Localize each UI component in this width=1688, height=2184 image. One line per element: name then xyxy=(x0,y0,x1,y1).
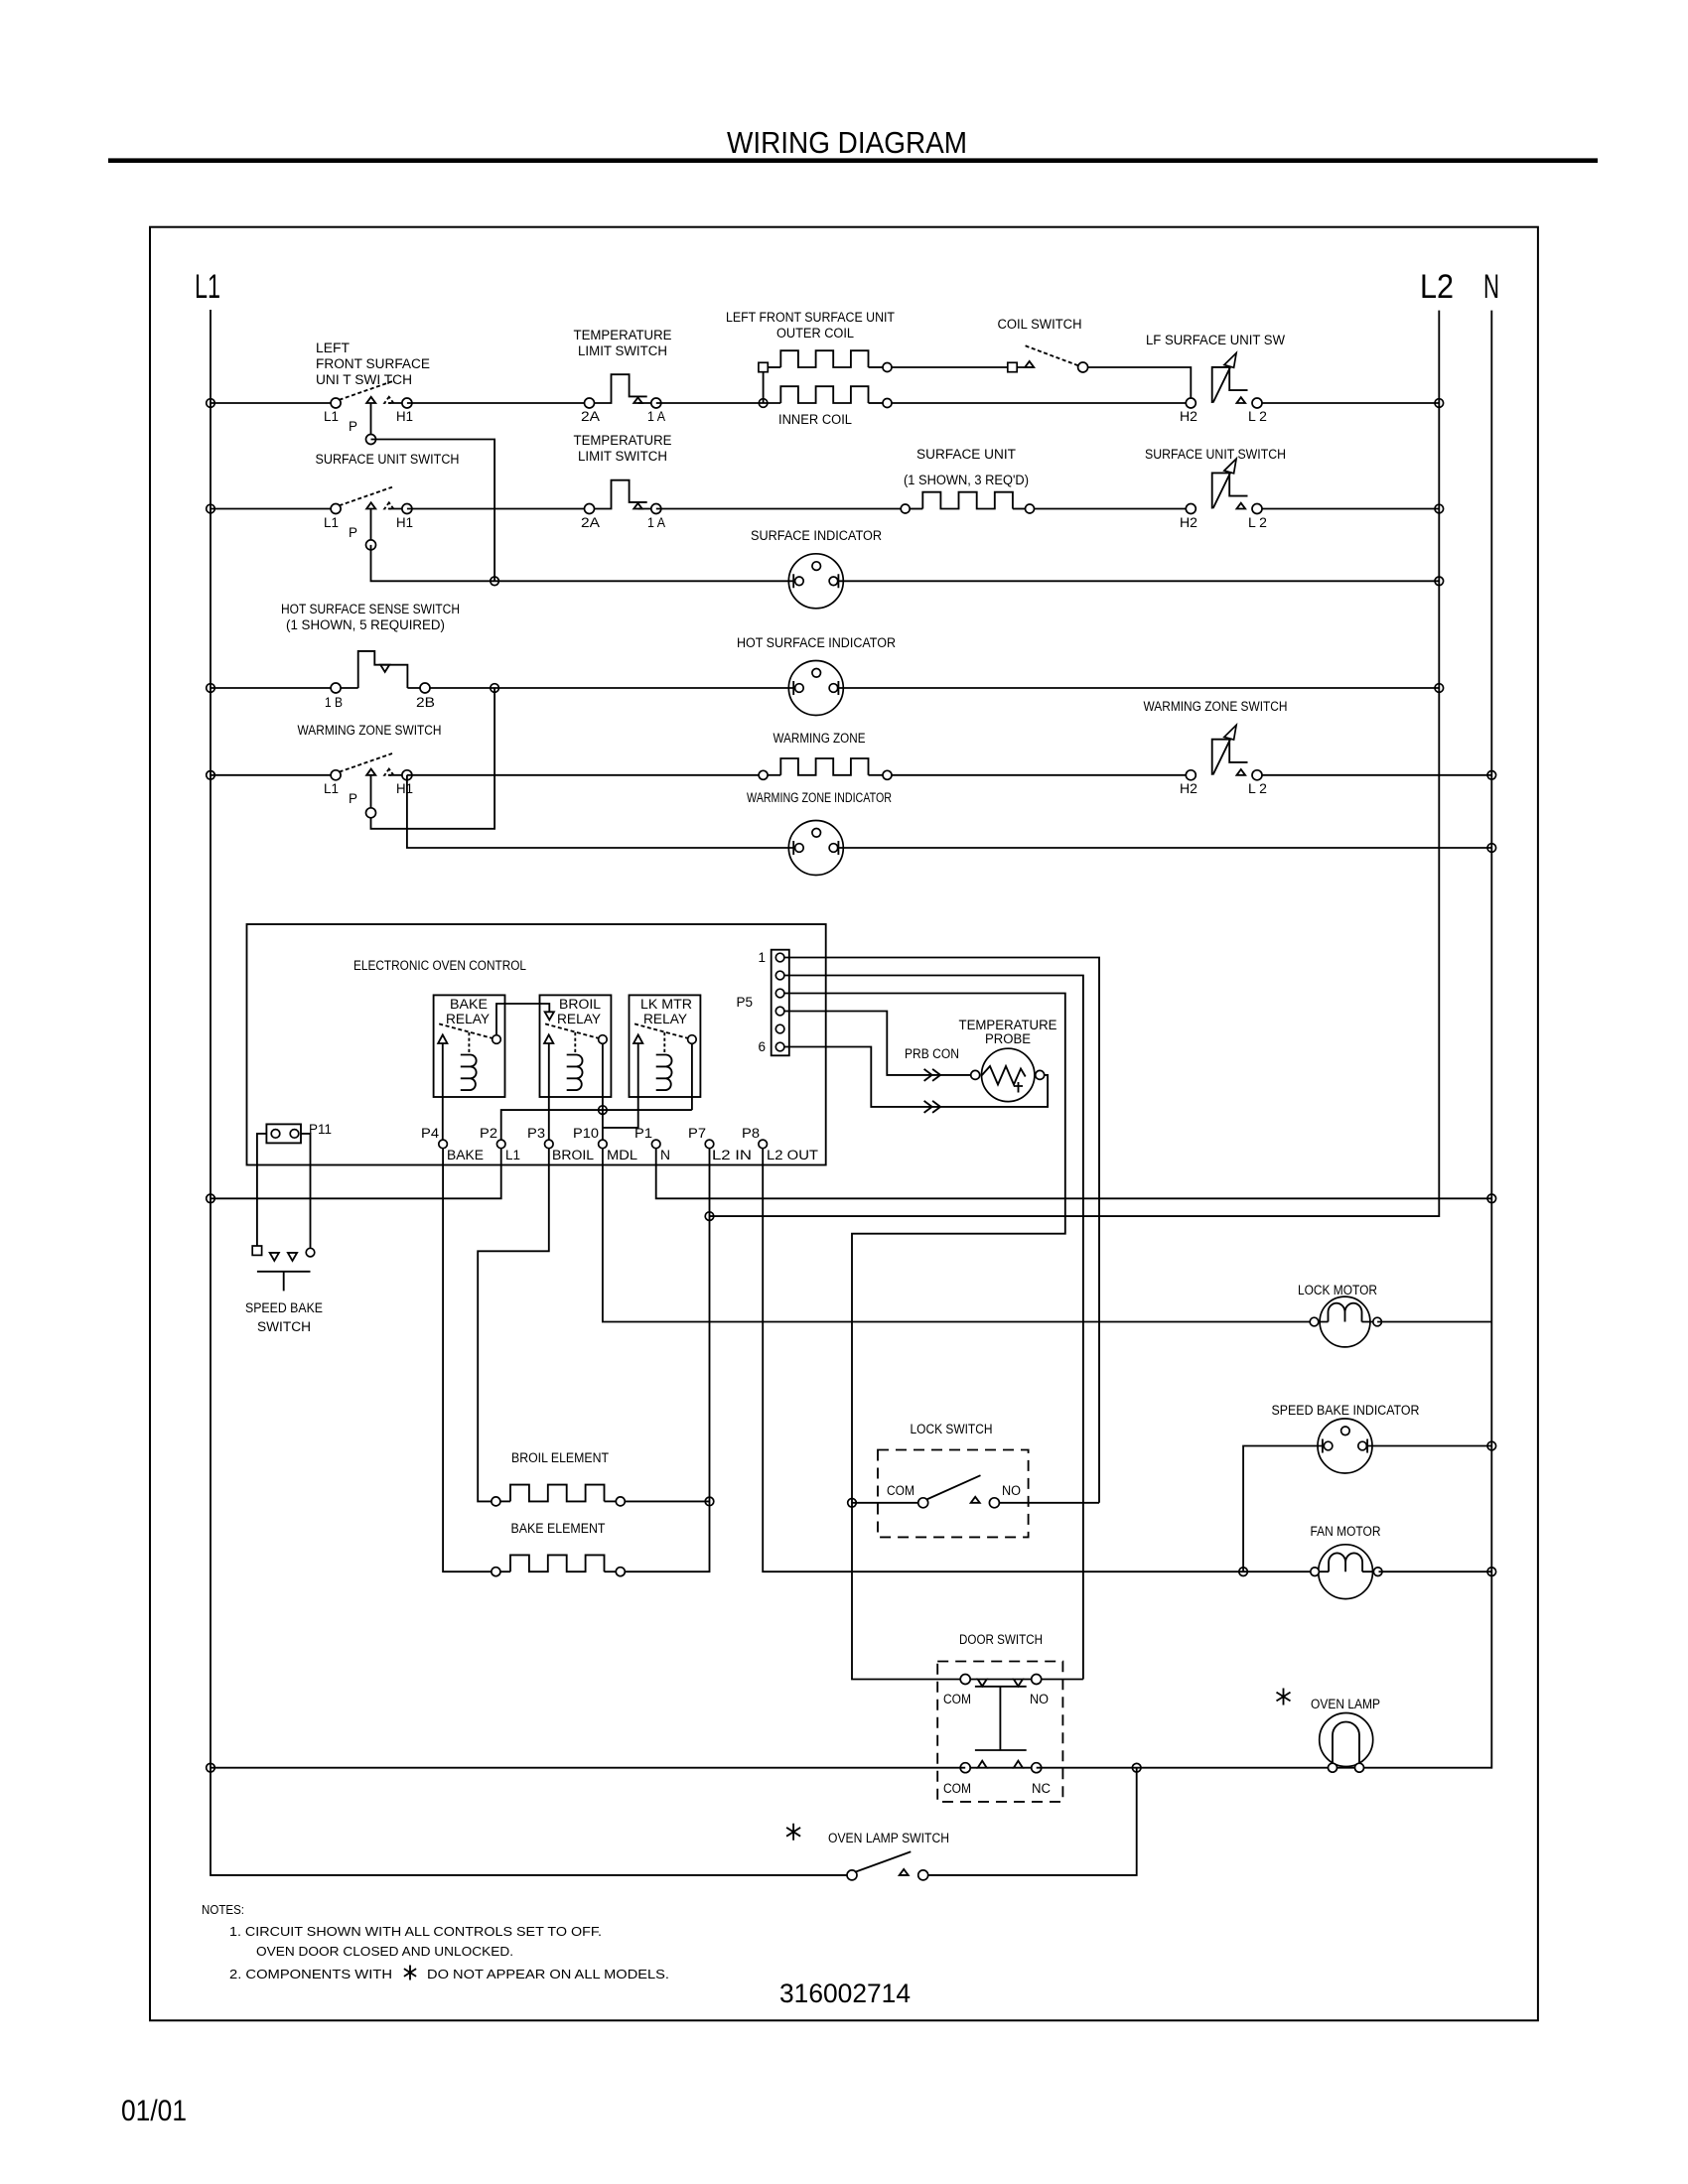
svg-text:BROIL: BROIL xyxy=(559,997,602,1012)
svg-text:H1: H1 xyxy=(396,781,413,796)
connector PRB CON upper xyxy=(924,1069,941,1081)
switch WARMING ZONE SWITCH: contacts L1-P-H1 xyxy=(331,753,412,818)
wire outer coil to coil switch xyxy=(892,366,1008,368)
wire P2 L1 feed xyxy=(211,1149,501,1199)
svg-text:P3: P3 xyxy=(527,1126,545,1141)
wire surface indicator row xyxy=(494,580,1439,582)
switch LOCK SWITCH contacts COM-NO xyxy=(852,1475,1099,1508)
junction inner coil node xyxy=(759,399,768,408)
wire H1 to 2A xyxy=(407,402,590,404)
wire H1 to warming element xyxy=(407,774,764,776)
pin P1 terminal xyxy=(651,1140,660,1149)
resistor INNER COIL xyxy=(780,386,892,407)
relay K1 BAKE RELAY NO contact xyxy=(438,1034,447,1043)
wire P7 L2 IN to elements xyxy=(625,1149,709,1572)
svg-text:BAKE: BAKE xyxy=(447,1148,484,1162)
switch S1 LEFT FRONT SURFACE UNIT SWITCH: contacts L1-P-H1 xyxy=(331,381,412,444)
svg-text:H1: H1 xyxy=(396,409,413,424)
junction L1 door row xyxy=(207,1763,215,1772)
relay K1 BAKE RELAY common terminal xyxy=(492,1035,501,1044)
svg-text:BAKE: BAKE xyxy=(450,997,488,1012)
junction L2 row1 xyxy=(1435,399,1444,408)
wire speed bake indicator to N xyxy=(1367,1445,1491,1447)
wire P5 pin1 to lock switch NO xyxy=(784,958,1099,1503)
svg-text:LIMIT SWITCH: LIMIT SWITCH xyxy=(578,449,667,464)
title rule xyxy=(108,158,1598,163)
wire N bus (to oven lamp) xyxy=(1364,311,1492,1768)
switch OVEN LAMP SWITCH xyxy=(847,1851,928,1880)
node broil feed contact xyxy=(545,1012,554,1020)
wire speed bake indicator left drop xyxy=(1243,1446,1323,1572)
switch LOCK SWITCH enclosure xyxy=(878,1450,1029,1538)
svg-text:SURFACE UNIT SWITCH: SURFACE UNIT SWITCH xyxy=(316,452,460,467)
wire H1 to 2A row2 xyxy=(407,508,590,510)
switch SPEED BAKE SWITCH actuator xyxy=(257,1272,311,1292)
svg-text:P: P xyxy=(349,419,357,434)
svg-text:P7: P7 xyxy=(688,1126,706,1141)
relay K2 BROIL RELAY NO contact xyxy=(544,1034,553,1043)
svg-text:L 2: L 2 xyxy=(1248,781,1267,796)
switch LF SURFACE UNIT SW: contacts H2-L2 xyxy=(1186,353,1262,408)
svg-text:2. COMPONENTS WITH: 2. COMPONENTS WITH xyxy=(229,1967,392,1981)
svg-text:OUTER COIL: OUTER COIL xyxy=(776,326,854,341)
relay K1 BAKE RELAY armature link xyxy=(468,1032,470,1055)
svg-text:TEMPERATURE: TEMPERATURE xyxy=(959,1018,1057,1032)
junction N EOC xyxy=(1487,1194,1496,1203)
svg-text:1 B: 1 B xyxy=(325,695,343,710)
relay K2 BROIL RELAY coil xyxy=(567,1055,583,1091)
svg-text:FRONT SURFACE: FRONT SURFACE xyxy=(316,356,430,371)
svg-text:COIL SWITCH: COIL SWITCH xyxy=(998,317,1082,332)
pin P2 terminal xyxy=(496,1140,505,1149)
junction L1 row2 xyxy=(207,504,215,513)
svg-text:P5: P5 xyxy=(736,995,753,1010)
wire row4 from L1 xyxy=(211,687,358,689)
junction N row5 xyxy=(1487,771,1496,780)
junction L2 row3 xyxy=(1435,577,1444,586)
svg-text:OVEN LAMP: OVEN LAMP xyxy=(1311,1697,1380,1711)
junction fan feed xyxy=(1239,1568,1248,1576)
junction N speed bake xyxy=(1487,1441,1496,1450)
svg-text:L1: L1 xyxy=(195,268,220,306)
svg-text:HOT SURFACE SENSE SWITCH: HOT SURFACE SENSE SWITCH xyxy=(281,602,460,616)
lamp SPEED BAKE INDICATOR xyxy=(1318,1419,1372,1473)
svg-text:P: P xyxy=(349,525,357,540)
connector PRB CON lower xyxy=(924,1101,941,1113)
junction lamp switch tap xyxy=(1132,1763,1141,1772)
relay K3 LK MTR RELAY common terminal xyxy=(688,1035,697,1044)
svg-text:P4: P4 xyxy=(421,1126,440,1141)
svg-text:LF SURFACE UNIT SW: LF SURFACE UNIT SW xyxy=(1146,333,1285,347)
wire door NC to oven lamp xyxy=(1037,1767,1359,1769)
svg-text:TEMPERATURE: TEMPERATURE xyxy=(574,433,672,448)
wire P8 L2 OUT to fan/indicator xyxy=(763,1149,1315,1572)
motor FAN MOTOR xyxy=(1311,1545,1382,1599)
relay K3 LK MTR RELAY NO contact xyxy=(633,1034,642,1043)
wire 1A to coil node xyxy=(656,402,781,404)
svg-text:NO: NO xyxy=(1030,1692,1049,1706)
wire LK MTR common drop xyxy=(691,1043,693,1110)
svg-text:SURFACE INDICATOR: SURFACE INDICATOR xyxy=(751,528,882,543)
svg-text:PRB CON: PRB CON xyxy=(905,1046,959,1061)
wire 1A to surface unit xyxy=(656,508,906,510)
svg-text:L2 IN: L2 IN xyxy=(712,1148,752,1162)
svg-text:N: N xyxy=(660,1148,670,1162)
svg-text:RELAY: RELAY xyxy=(446,1012,490,1026)
wire broil NO to P3 xyxy=(548,1043,550,1144)
relay K1 BAKE RELAY box xyxy=(434,995,505,1097)
relay K3 LK MTR RELAY armature link xyxy=(663,1032,665,1055)
svg-text:DOOR SWITCH: DOOR SWITCH xyxy=(959,1632,1043,1647)
motor LOCK MOTOR xyxy=(1310,1297,1381,1347)
lamp HOT SURFACE INDICATOR xyxy=(788,661,843,716)
svg-text:FAN MOTOR: FAN MOTOR xyxy=(1311,1524,1381,1539)
wire L1 bus xyxy=(211,310,852,1875)
pin P4 terminal xyxy=(439,1140,448,1149)
resistor SURFACE UNIT element xyxy=(901,492,1034,513)
svg-text:P8: P8 xyxy=(742,1126,760,1141)
relay K2 BROIL RELAY box xyxy=(540,995,612,1097)
wire P11 left lead xyxy=(257,1134,267,1246)
svg-text:COM: COM xyxy=(943,1781,971,1796)
switch DOOR SWITCH enclosure xyxy=(937,1662,1062,1802)
resistor LEFT FRONT SURFACE UNIT OUTER COIL xyxy=(768,350,892,371)
svg-text:ELECTRONIC OVEN CONTROL: ELECTRONIC OVEN CONTROL xyxy=(353,958,526,973)
svg-text:NOTES:: NOTES: xyxy=(202,1902,244,1917)
junction L1 row5 xyxy=(207,771,215,780)
svg-text:PROBE: PROBE xyxy=(985,1031,1031,1046)
junction indicator feed xyxy=(491,577,499,586)
svg-text:L1: L1 xyxy=(505,1148,520,1162)
wire lock motor to N xyxy=(1377,1321,1491,1323)
svg-text:WARMING ZONE SWITCH: WARMING ZONE SWITCH xyxy=(298,723,442,738)
svg-text:UNI T SWI TCH: UNI T SWI TCH xyxy=(316,372,412,387)
svg-text:WIRING DIAGRAM: WIRING DIAGRAM xyxy=(727,125,967,160)
svg-text:2A: 2A xyxy=(581,409,600,424)
wire row2 L1 to switch xyxy=(211,508,336,510)
wire H1 down to warming indicator xyxy=(407,775,793,848)
resistor BROIL ELEMENT xyxy=(492,1485,710,1506)
wire P row2 to indicator junction xyxy=(371,545,495,581)
svg-text:SURFACE UNIT: SURFACE UNIT xyxy=(916,447,1016,462)
relay K3 LK MTR RELAY coil xyxy=(656,1055,672,1091)
switch HOT SURFACE SENSE SWITCH contacts 1B-2B xyxy=(331,651,430,693)
relay K1 BAKE RELAY contact blade xyxy=(439,1024,496,1039)
switch DOOR SWITCH upper pole COM-NO xyxy=(960,1675,1083,1687)
wire row1 L1 to switch xyxy=(211,402,336,404)
junction L1 EOC feed xyxy=(207,1194,215,1203)
svg-text:P: P xyxy=(349,791,357,806)
relay K1 BAKE RELAY coil xyxy=(461,1055,477,1091)
switch DOOR SWITCH actuator bar xyxy=(975,1687,1027,1750)
wire L2 contact to L2 bus xyxy=(1262,402,1439,404)
svg-text:RELAY: RELAY xyxy=(643,1012,687,1026)
svg-text:OVEN LAMP SWITCH: OVEN LAMP SWITCH xyxy=(828,1831,949,1845)
svg-text:P10: P10 xyxy=(573,1126,599,1141)
lamp OVEN LAMP xyxy=(1320,1713,1373,1773)
svg-text:NC: NC xyxy=(1032,1781,1051,1796)
switch S2 SURFACE UNIT SWITCH: contacts L1-P-H1 xyxy=(331,487,412,550)
svg-text:BROIL: BROIL xyxy=(552,1148,595,1162)
wire bake common to broil feed xyxy=(496,1004,549,1035)
pin P8 terminal xyxy=(759,1140,768,1149)
svg-text:1 A: 1 A xyxy=(647,515,665,530)
switch SURFACE UNIT SWITCH (right): contacts H2-L2 xyxy=(1186,459,1262,513)
svg-text:COM: COM xyxy=(887,1483,914,1498)
wire P11 right lead xyxy=(301,1134,311,1248)
resistor WARMING ZONE element xyxy=(759,758,892,779)
svg-text:SPEED BAKE INDICATOR: SPEED BAKE INDICATOR xyxy=(1272,1403,1420,1418)
junction hot surface feed xyxy=(491,684,499,693)
wire P5 pin2 to door switch NO xyxy=(784,976,1083,1680)
svg-text:N: N xyxy=(1483,268,1499,306)
junction N fan xyxy=(1487,1568,1496,1576)
svg-text:H1: H1 xyxy=(396,515,413,530)
switch TEMPERATURE LIMIT SWITCH (row2): contacts 2A-1A xyxy=(585,480,661,514)
svg-text:2A: 2A xyxy=(581,515,600,530)
wire lamp switch drop xyxy=(923,1768,1137,1875)
svg-text:(1 SHOWN, 5 REQUIRED): (1 SHOWN, 5 REQUIRED) xyxy=(286,617,445,632)
svg-text:6: 6 xyxy=(758,1039,766,1054)
svg-text:HOT SURFACE INDICATOR: HOT SURFACE INDICATOR xyxy=(737,635,896,650)
relay K2 BROIL RELAY armature link xyxy=(574,1032,576,1055)
switch TEMPERATURE LIMIT SWITCH (row1): contacts 2A-1A xyxy=(585,374,661,408)
svg-text:1. CIRCUIT SHOWN WITH ALL CON: 1. CIRCUIT SHOWN WITH ALL CONTROLS SET T… xyxy=(229,1924,602,1939)
wire outer/inner coil link xyxy=(763,367,765,403)
svg-text:RELAY: RELAY xyxy=(557,1012,601,1026)
svg-text:1 A: 1 A xyxy=(647,409,665,424)
svg-text:(1 SHOWN, 3 REQ'D): (1 SHOWN, 3 REQ'D) xyxy=(904,473,1029,487)
svg-text:L1: L1 xyxy=(324,781,339,796)
wire P4 BAKE to bake element xyxy=(443,1149,495,1572)
svg-text:1: 1 xyxy=(758,950,766,965)
svg-text:L 2: L 2 xyxy=(1248,515,1267,530)
junction P7 L2-IN tap xyxy=(705,1212,714,1221)
svg-text:P11: P11 xyxy=(309,1122,332,1137)
junction N row6 xyxy=(1487,844,1496,853)
wire coil switch to H2 xyxy=(1088,367,1192,403)
wire warming indicator to N xyxy=(838,847,1491,849)
relay K3 LK MTR RELAY box xyxy=(630,995,701,1097)
svg-text:TEMPERATURE: TEMPERATURE xyxy=(574,328,672,342)
wire L2 contact to L2 bus row2 xyxy=(1262,508,1439,510)
outer border frame xyxy=(150,227,1538,2021)
junction L2 row4 xyxy=(1435,684,1444,693)
wire L1 to door COM xyxy=(211,1767,965,1769)
thermistor TEMPERATURE PROBE xyxy=(971,1048,1045,1101)
svg-text:2B: 2B xyxy=(416,695,435,710)
svg-text:SPEED BAKE: SPEED BAKE xyxy=(245,1300,323,1315)
wire P row1 to indicator junction xyxy=(371,440,495,582)
wire L2 bus (to P7 L2 IN) xyxy=(710,311,1440,1217)
relay K2 BROIL RELAY common terminal xyxy=(599,1035,608,1044)
wire P1 N to N bus xyxy=(656,1149,1492,1199)
svg-text:L2 OUT: L2 OUT xyxy=(767,1148,818,1162)
wire LK MTR NO to MDL net xyxy=(603,1043,638,1128)
connector P5 xyxy=(772,950,789,1056)
switch SPEED BAKE SWITCH terminals xyxy=(252,1246,315,1261)
relay K2 BROIL RELAY contact blade xyxy=(545,1024,603,1039)
switch DOOR SWITCH lower pole COM-NC xyxy=(960,1761,1041,1773)
svg-text:SURFACE UNIT SWITCH: SURFACE UNIT SWITCH xyxy=(1145,447,1286,462)
svg-text:INNER COIL: INNER COIL xyxy=(778,412,852,427)
module ELECTRONIC OVEN CONTROL box xyxy=(247,924,826,1165)
svg-text:MDL: MDL xyxy=(607,1148,638,1162)
svg-text:BROIL ELEMENT: BROIL ELEMENT xyxy=(511,1450,609,1465)
svg-text:BAKE ELEMENT: BAKE ELEMENT xyxy=(511,1521,606,1536)
relay K3 LK MTR RELAY contact blade xyxy=(634,1024,692,1039)
switch WARMING ZONE SWITCH (right): contacts H2-L2 xyxy=(1186,725,1262,779)
svg-text:LOCK MOTOR: LOCK MOTOR xyxy=(1298,1283,1377,1297)
wire P10 MDL to lock motor xyxy=(603,1149,1315,1322)
wire P5 pin4 to probe xyxy=(784,1012,975,1075)
svg-text:SWITCH: SWITCH xyxy=(257,1319,311,1334)
wire element to H2 xyxy=(892,774,1191,776)
svg-text:WARMING ZONE INDICATOR: WARMING ZONE INDICATOR xyxy=(747,790,892,805)
wire P5 pin3 to door switch COM xyxy=(784,994,1065,1680)
wire P3 BROIL to broil element xyxy=(478,1149,549,1502)
svg-text:LK MTR: LK MTR xyxy=(640,997,692,1012)
svg-text:NO: NO xyxy=(1002,1483,1021,1498)
svg-text:L 2: L 2 xyxy=(1248,409,1267,424)
svg-text:LEFT FRONT SURFACE UNIT: LEFT FRONT SURFACE UNIT xyxy=(726,310,895,325)
wire bake NO to P4 xyxy=(442,1043,444,1144)
svg-text:LEFT: LEFT xyxy=(316,341,350,355)
svg-text:WARMING ZONE SWITCH: WARMING ZONE SWITCH xyxy=(1144,699,1288,714)
svg-text:P1: P1 xyxy=(634,1126,652,1141)
junction MDL net xyxy=(599,1106,608,1115)
svg-text:COM: COM xyxy=(943,1692,971,1706)
lamp WARMING ZONE INDICATOR xyxy=(788,821,843,876)
svg-text:WARMING ZONE: WARMING ZONE xyxy=(774,731,866,746)
node outer coil terminal xyxy=(759,362,768,371)
svg-text:H2: H2 xyxy=(1180,409,1197,424)
svg-text:H2: H2 xyxy=(1180,781,1197,796)
wire junction down to warming P xyxy=(371,688,495,829)
svg-text:P2: P2 xyxy=(480,1126,497,1141)
switch COIL SWITCH xyxy=(1008,345,1088,372)
svg-text:01/01: 01/01 xyxy=(121,2095,187,2127)
junction L1 row1 xyxy=(207,399,215,408)
svg-text:LIMIT SWITCH: LIMIT SWITCH xyxy=(578,343,667,358)
pin P3 terminal xyxy=(545,1140,554,1149)
connector P11 xyxy=(266,1124,301,1143)
svg-text:LOCK SWITCH: LOCK SWITCH xyxy=(911,1422,993,1436)
lamp SURFACE INDICATOR xyxy=(788,554,843,609)
svg-text:L1: L1 xyxy=(324,409,339,424)
junction broil element tie xyxy=(705,1497,714,1506)
svg-text:DO NOT APPEAR ON ALL MODELS.: DO NOT APPEAR ON ALL MODELS. xyxy=(427,1967,669,1981)
wire 2B to indicator xyxy=(430,687,1439,689)
resistor BAKE ELEMENT xyxy=(492,1555,625,1575)
note asterisk lamp switch xyxy=(786,1824,800,1841)
svg-text:L2: L2 xyxy=(1420,268,1454,306)
note asterisk oven lamp xyxy=(1277,1689,1291,1706)
junction L1 row4 xyxy=(207,684,215,693)
junction lock COM tie xyxy=(848,1499,857,1508)
svg-text:L1: L1 xyxy=(324,515,339,530)
wire fan motor to N xyxy=(1379,1570,1492,1572)
junction L2 row2 xyxy=(1435,504,1444,513)
wire inner coil to H2 xyxy=(892,402,1191,404)
wire P5 pin6 to probe xyxy=(784,1047,1048,1107)
svg-text:H2: H2 xyxy=(1180,515,1197,530)
svg-text:316002714: 316002714 xyxy=(779,1979,911,2008)
svg-text:OVEN DOOR CLOSED AND UNLOCKED.: OVEN DOOR CLOSED AND UNLOCKED. xyxy=(256,1944,513,1959)
wire P2 riser / L1 tie xyxy=(501,1110,692,1144)
wire broil common to P10 xyxy=(602,1043,604,1144)
wire row5 L1 to switch xyxy=(211,774,336,776)
pin P7 terminal xyxy=(705,1140,714,1149)
wire L2 contact to N bus xyxy=(1262,774,1491,776)
pin P10 terminal xyxy=(599,1140,608,1149)
wire surface unit to H2 xyxy=(1035,508,1192,510)
